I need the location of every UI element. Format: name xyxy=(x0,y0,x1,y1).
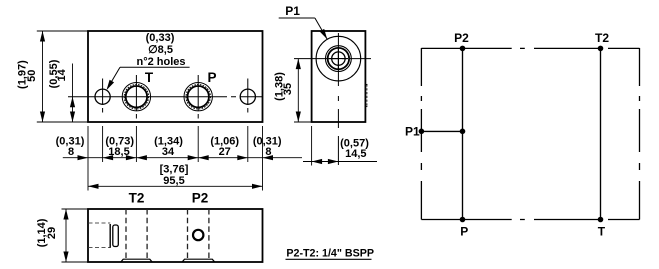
port P1 thread circles xyxy=(326,46,352,72)
mounting hole left xyxy=(95,89,110,104)
junction P1-P2 line xyxy=(460,129,466,135)
svg-text:95,5: 95,5 xyxy=(163,175,184,187)
wire P1 branch xyxy=(421,130,462,132)
port T centerline xyxy=(135,75,137,119)
svg-text:8: 8 xyxy=(68,146,74,158)
svg-text:35: 35 xyxy=(282,83,294,95)
hole note leader xyxy=(104,67,189,91)
svg-text:T2: T2 xyxy=(129,191,145,206)
node P2 xyxy=(460,46,466,52)
T2 port hidden lines xyxy=(126,209,147,259)
dim 27 (1,06) xyxy=(210,136,239,158)
svg-text:(0,33): (0,33) xyxy=(146,32,175,44)
dim 14 (0,55) left xyxy=(48,59,75,122)
mounting hole left centerline xyxy=(102,79,104,119)
side view vertical centerline xyxy=(337,33,339,166)
svg-text:50: 50 xyxy=(26,70,38,82)
svg-text:14,5: 14,5 xyxy=(345,148,366,160)
row 1 arrowheads xyxy=(78,155,274,160)
side view horizontal centerline xyxy=(294,58,371,60)
bottom view block outline xyxy=(88,209,263,262)
svg-text:P1: P1 xyxy=(285,4,300,18)
svg-text:P2: P2 xyxy=(192,191,209,206)
svg-text:18,5: 18,5 xyxy=(108,146,129,158)
wire T2 to T xyxy=(600,48,602,220)
svg-text:[3,76]: [3,76] xyxy=(160,164,189,176)
dim 95,5 [3,76] overall xyxy=(88,164,263,189)
P2 orifice circle xyxy=(193,230,203,240)
dim 8 (0,31) left xyxy=(56,136,85,158)
schematic boundary bottom xyxy=(421,219,639,221)
dim 18,5 (0,73) xyxy=(105,136,134,158)
dim 8 (0,31) right xyxy=(253,136,282,158)
side view block outline xyxy=(312,31,366,122)
dim 29 (1,14) xyxy=(36,209,88,262)
svg-text:27: 27 xyxy=(219,146,231,158)
dim 34 (1,34) xyxy=(154,136,183,158)
T2 port pad xyxy=(121,259,152,262)
port P centerline xyxy=(197,75,199,119)
mounting hole right xyxy=(240,89,255,104)
port pad edge-on right side xyxy=(366,84,368,106)
svg-text:P2-T2: 1/4" BSPP: P2-T2: 1/4" BSPP xyxy=(286,248,374,260)
svg-text:∅8,5: ∅8,5 xyxy=(148,44,173,56)
svg-text:T2: T2 xyxy=(595,31,609,45)
svg-text:T: T xyxy=(598,224,606,238)
schematic boundary right xyxy=(639,48,641,220)
P2 port pad xyxy=(182,259,214,262)
svg-text:P: P xyxy=(207,70,216,85)
svg-text:29: 29 xyxy=(46,227,58,239)
svg-text:P1: P1 xyxy=(405,125,420,139)
schematic boundary left xyxy=(420,48,422,220)
port P xyxy=(184,83,212,111)
svg-text:14: 14 xyxy=(56,68,68,81)
svg-text:8: 8 xyxy=(265,146,271,158)
svg-text:34: 34 xyxy=(162,146,175,158)
front view block outline xyxy=(88,31,263,122)
dim 50 (1,97) left xyxy=(17,31,88,122)
svg-text:P2: P2 xyxy=(454,31,469,45)
mounting hole right centerline xyxy=(247,79,249,119)
schematic boundary top xyxy=(421,47,639,49)
dim 35 (1,38) xyxy=(273,59,311,122)
node T xyxy=(598,217,604,223)
cartridge plug hidden body xyxy=(89,223,111,248)
wire P2 to P xyxy=(462,48,464,220)
cartridge plug head xyxy=(110,224,118,248)
node T2 xyxy=(598,46,604,52)
extension lines below front view xyxy=(88,126,263,191)
svg-text:T: T xyxy=(145,70,154,85)
port T xyxy=(122,83,150,111)
dim 14,5 (0,57) xyxy=(303,126,377,166)
P2 port hidden lines xyxy=(188,209,209,259)
note P2-T2 xyxy=(286,248,375,260)
port P1 counterbore circle xyxy=(316,36,361,81)
port P1 pilot hole xyxy=(332,52,345,65)
node P xyxy=(460,217,466,223)
P1 leader xyxy=(279,18,330,41)
node P1 xyxy=(419,129,425,135)
chain dimension line row 1 xyxy=(63,157,302,159)
port P1 crosshair xyxy=(329,58,348,60)
svg-text:n°2 holes: n°2 holes xyxy=(136,56,185,68)
hole note text xyxy=(136,32,185,68)
horizontal centerline through ports xyxy=(68,96,263,98)
svg-text:P: P xyxy=(460,224,468,238)
